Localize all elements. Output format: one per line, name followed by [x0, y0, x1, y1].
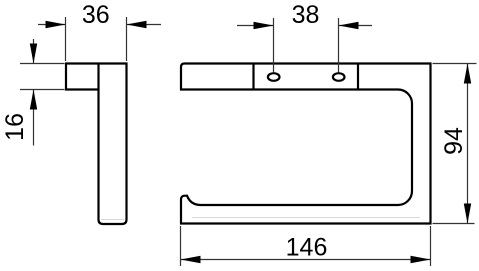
dimension 16: upper dim line segment: [33, 39, 35, 64]
dimension 38: left extension line: [273, 18, 275, 73]
svg-text:38: 38: [292, 1, 320, 29]
dimension 146: left arrow: [181, 256, 201, 263]
front view: C-shaped holder outline: [181, 64, 431, 224]
dimension 36: right arrow: [127, 21, 147, 28]
front view: right mounting hole: [333, 73, 345, 81]
left view: plate/arm separator line: [97, 64, 99, 90]
dimension 38: right dim line segment: [339, 25, 373, 27]
dimension 146: dim line: [181, 259, 431, 261]
dimension 146: left extension line: [180, 226, 182, 266]
front view: right separator on top bar: [357, 64, 359, 90]
dimension 36: right extension line: [126, 17, 128, 61]
dimension 38: left dim line segment: [237, 25, 274, 27]
left view: faint inner edge line: [101, 219, 124, 221]
dimension 16: bottom extension line: [20, 89, 65, 91]
dimension 16: up arrow: [30, 90, 37, 110]
dimension 36: left extension line: [65, 17, 67, 61]
front view: left separator on top bar: [252, 64, 254, 90]
dimension 94: dim line: [467, 64, 469, 224]
dimension 38: right arrow: [339, 22, 359, 29]
dimension 38: right extension line: [338, 18, 340, 73]
dimension 16: down arrow: [30, 44, 37, 64]
dimension 36: right dim line segment: [127, 24, 162, 26]
dimension 36: left arrow: [46, 21, 66, 28]
svg-text:94: 94: [440, 127, 468, 155]
svg-text:36: 36: [82, 1, 110, 29]
dimension 146: right arrow: [411, 256, 431, 263]
dimension 38: left arrow: [254, 22, 274, 29]
front view: faint inner edge line on bottom bar: [192, 217, 420, 219]
dimension 16: lower dim line segment: [33, 90, 35, 146]
svg-text:16: 16: [1, 113, 29, 141]
dimension 94: bottom extension line: [433, 223, 475, 225]
dimension 94: down arrow: [464, 204, 471, 224]
svg-text:146: 146: [286, 234, 328, 262]
dimension 94: top extension line: [433, 63, 477, 65]
front view: left mounting hole: [268, 73, 280, 81]
dimension 36: left dim line segment: [38, 24, 66, 26]
left view: side profile outline: [66, 64, 127, 225]
dimension 146: right extension line: [430, 226, 432, 266]
dimension 16: top extension line: [20, 63, 65, 65]
dimension 94: up arrow: [464, 64, 471, 84]
